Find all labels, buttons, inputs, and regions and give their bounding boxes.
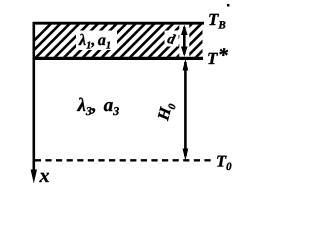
label lambda3, a3 bbox=[77, 98, 86, 111]
left vertical boundary / x axis line bbox=[32, 22, 35, 177]
d dimension arrow bbox=[181, 25, 188, 57]
label T_B bbox=[209, 14, 219, 25]
dashed line T0 level bbox=[35, 159, 212, 161]
small scan dot bbox=[227, 4, 230, 7]
top boundary line (T_B surface) bbox=[33, 22, 204, 25]
H0 label (rotated) bbox=[158, 102, 176, 123]
d label (rotated) bbox=[167, 33, 176, 44]
hatched layer 1 (lambda1,a1) bbox=[17, 22, 232, 58]
label T* bbox=[208, 53, 218, 64]
interface line (T*) bbox=[33, 57, 203, 60]
x axis label bbox=[39, 173, 49, 182]
label T0 bbox=[217, 156, 226, 167]
white gap for layer label bbox=[76, 31, 117, 51]
white halo around d arrow bbox=[179, 25, 189, 58]
x axis arrowhead bbox=[31, 170, 37, 184]
label lambda1, a1 bbox=[78, 34, 85, 45]
H0 dimension arrow bbox=[183, 59, 189, 161]
